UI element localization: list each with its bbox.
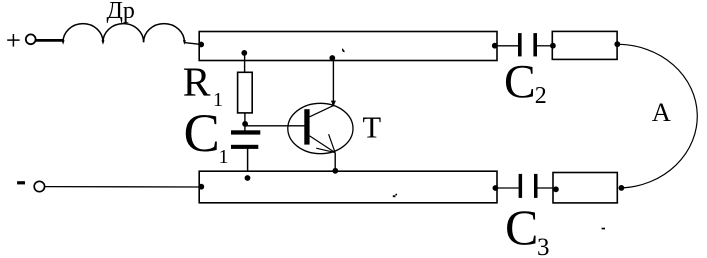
svg-text:Т: Т	[363, 111, 382, 145]
svg-text:3: 3	[537, 234, 550, 258]
wire collector (top line down)	[332, 59, 334, 106]
node: bottom line left junction	[198, 184, 204, 190]
node: R1/C1/base junction	[242, 121, 248, 127]
svg-text:R: R	[183, 59, 211, 105]
minus input terminal circle	[34, 181, 44, 191]
node: top line right junction	[492, 43, 498, 49]
top right stub rectangle	[552, 31, 617, 59]
wire emitter to bottom line	[334, 153, 336, 172]
wire C3 to bottom right stub	[538, 187, 554, 189]
svg-text:Др: Др	[107, 0, 135, 24]
capacitor C2 plates	[518, 33, 522, 56]
capacitor C3 plates	[519, 174, 523, 198]
node: bottom stub left	[553, 186, 559, 192]
wire base (junction to transistor base)	[245, 125, 305, 127]
wire bottom line to C3	[498, 187, 519, 189]
emitter diagonal lead	[310, 136, 336, 153]
emitter arrow barb lower	[316, 148, 335, 152]
wire C1 to bottom line	[247, 149, 249, 173]
plus input terminal circle	[26, 34, 36, 44]
inductor Др (choke)	[63, 24, 184, 43]
wire from - terminal to bottom line	[45, 186, 200, 188]
emitter arrow barb upper	[329, 134, 336, 152]
transistor base bar	[304, 109, 309, 144]
node: C1 to bottom line junction	[245, 175, 251, 181]
minus terminal label -	[17, 181, 25, 184]
node: R1 tap on top line	[241, 50, 247, 56]
svg-text:C: C	[504, 56, 536, 108]
wire from + terminal to choke	[36, 39, 64, 42]
svg-text:2: 2	[535, 83, 547, 109]
wire top line to R1	[244, 53, 246, 73]
wire choke to top line	[184, 43, 201, 45]
node: stub right / arc start	[614, 41, 620, 47]
svg-text:C: C	[184, 102, 220, 163]
node: top line left junction	[198, 42, 204, 48]
node: bottom line right junction	[493, 185, 499, 191]
wire top line to C2	[497, 45, 518, 47]
top strip line (long rectangle)	[199, 32, 497, 61]
node: collector tap on top line	[329, 55, 335, 61]
resistor R1 body	[238, 72, 253, 113]
plus terminal label +	[7, 34, 19, 47]
svg-text:1: 1	[219, 146, 229, 168]
node: stub left	[550, 43, 556, 49]
node: bottom stub right / arc end	[619, 185, 625, 191]
wire R1 to C1	[244, 113, 246, 131]
stray mark in bottom line	[393, 195, 396, 197]
wire C2 to top right stub	[537, 45, 552, 47]
antenna loop arc A	[618, 44, 698, 188]
svg-text:A: A	[652, 97, 671, 127]
collector diagonal lead	[310, 106, 334, 117]
stray mark near top line	[342, 49, 345, 53]
bottom strip line (long rectangle)	[199, 171, 497, 203]
bottom right stub rectangle	[553, 173, 617, 203]
capacitor C1 plates	[231, 130, 260, 134]
svg-text:C: C	[505, 199, 538, 255]
node: emitter on bottom line	[332, 168, 338, 174]
transistor T ellipse	[288, 103, 353, 153]
stray mark below bottom stub	[602, 228, 605, 230]
